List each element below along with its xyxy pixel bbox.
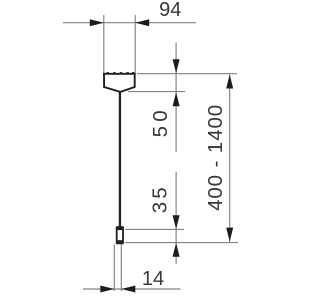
svg-text:400 - 1400: 400 - 1400 [204,104,227,211]
svg-text:14: 14 [142,268,164,290]
svg-text:35: 35 [149,184,172,213]
svg-text:50: 50 [149,106,172,137]
svg-text:94: 94 [159,0,181,21]
